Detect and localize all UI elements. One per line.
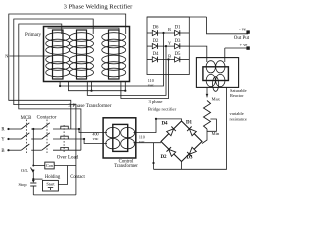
label Out Put bbox=[234, 36, 250, 41]
bridge diamond wires bbox=[161, 121, 202, 162]
wire control left rail bbox=[32, 129, 34, 166]
svg-text:Out Put: Out Put bbox=[234, 36, 250, 41]
node B dot bbox=[167, 58, 169, 60]
control transformer box bbox=[103, 118, 136, 158]
terminal -ve square bbox=[246, 30, 249, 33]
svg-text:3 phase: 3 phase bbox=[149, 99, 163, 104]
svg-text:+ ve: + ve bbox=[240, 42, 248, 47]
junction dot star limb2 bbox=[90, 90, 92, 92]
label Bridge rectifier bbox=[148, 106, 177, 111]
label +ve bbox=[240, 42, 248, 47]
label -ve bbox=[239, 27, 246, 32]
wire control right rail bbox=[75, 139, 77, 195]
junction dot star limb3 bbox=[124, 90, 126, 92]
svg-text:vac: vac bbox=[93, 136, 99, 141]
label Control Transformer bbox=[114, 159, 138, 169]
label Max bbox=[212, 97, 221, 102]
wire secondary star bus bbox=[69, 82, 126, 91]
wire negative output drop bbox=[207, 17, 249, 34]
terminal +ve square bbox=[246, 46, 249, 49]
svg-text:3 Phase Transformer: 3 Phase Transformer bbox=[69, 102, 112, 109]
svg-text:D3: D3 bbox=[186, 156, 193, 161]
label Min bbox=[212, 131, 220, 136]
wire secondary lower to bridge left bbox=[134, 142, 162, 144]
wire primary interconnect bus bbox=[48, 28, 120, 34]
title text bbox=[64, 3, 134, 10]
svg-text:MCB: MCB bbox=[21, 116, 32, 121]
wire secondary phase Y to rectifier bbox=[87, 46, 166, 95]
diode D6 label bbox=[153, 26, 159, 31]
junction dot R row tap bbox=[78, 128, 80, 130]
junction dot Y row tap bbox=[83, 138, 85, 140]
svg-text:Max: Max bbox=[212, 97, 221, 102]
wire reactor to positive output bbox=[224, 48, 226, 62]
transformer T1 limb 1 windings bbox=[46, 30, 70, 79]
svg-text:D2: D2 bbox=[153, 39, 159, 44]
junction dot bridge top wire bbox=[155, 118, 157, 120]
svg-text:variable: variable bbox=[230, 111, 244, 116]
wire control bottom bbox=[33, 194, 76, 196]
node B supply label bbox=[1, 149, 4, 154]
stop button bbox=[30, 180, 36, 195]
wire B phase loop (contactor to primary limb1) bbox=[19, 24, 81, 150]
diode D4 label bbox=[153, 52, 159, 57]
control transformer core box bbox=[113, 124, 128, 151]
junction dot lower tap bbox=[152, 162, 154, 164]
label Start bbox=[46, 182, 55, 187]
wire B row with MCB and contactor switches bbox=[9, 144, 81, 150]
wire negative output bbox=[147, 16, 207, 18]
node R dot bbox=[162, 32, 164, 34]
label 3 phase bbox=[149, 99, 163, 104]
svg-text:Y: Y bbox=[1, 138, 5, 143]
node Y supply dot bbox=[7, 138, 9, 140]
saturable reactor outer box bbox=[196, 58, 238, 88]
label 3 Phase Transformer bbox=[69, 102, 112, 109]
node Y label bbox=[168, 40, 172, 45]
diode D5 label bbox=[175, 52, 181, 57]
wire bridge bottom to return bbox=[181, 162, 183, 170]
diode D1 label bbox=[175, 26, 181, 31]
diode D2 row wire bbox=[147, 43, 189, 49]
wire rectifier positive to reactor bbox=[189, 46, 207, 62]
label 110 vac (secondary) bbox=[139, 135, 145, 144]
svg-text:- ve: - ve bbox=[239, 27, 246, 32]
wire positive output bbox=[225, 47, 248, 49]
saturable reactor windings bbox=[206, 61, 225, 92]
node R supply dot bbox=[7, 128, 9, 130]
diode D6 row wire bbox=[147, 30, 189, 36]
wire secondary phase B to rectifier bbox=[121, 59, 169, 98]
contactor linkage dashed bbox=[46, 120, 48, 154]
label Over Load bbox=[57, 156, 79, 161]
junction dot control tap bbox=[32, 128, 34, 130]
wire 400vac lower bbox=[84, 139, 107, 144]
svg-text:D1: D1 bbox=[186, 121, 193, 126]
svg-text:D1: D1 bbox=[175, 26, 181, 31]
node Y supply label bbox=[1, 138, 5, 143]
svg-text:D6: D6 bbox=[153, 26, 159, 31]
svg-text:D3: D3 bbox=[175, 39, 181, 44]
svg-text:3 Phase Welding Rectifier: 3 Phase Welding Rectifier bbox=[64, 3, 134, 10]
label Primary bbox=[25, 33, 42, 38]
label Con bbox=[46, 163, 54, 168]
diode D4 row wire bbox=[147, 57, 189, 63]
node B supply dot bbox=[7, 149, 9, 151]
svg-text:resistance: resistance bbox=[230, 117, 247, 122]
overload linkage dashed bbox=[63, 125, 65, 152]
wire Y row with MCB and contactor switches bbox=[9, 133, 85, 139]
wire coil left bbox=[32, 165, 45, 167]
svg-text:Over Load: Over Load bbox=[57, 156, 79, 161]
diode D3 label bbox=[175, 39, 181, 44]
svg-text:Con: Con bbox=[46, 163, 54, 168]
wire neutral N bbox=[10, 55, 53, 57]
svg-text:Start: Start bbox=[46, 182, 55, 187]
node N label bbox=[5, 54, 9, 59]
svg-text:B: B bbox=[1, 149, 4, 154]
arrow max wiper bbox=[206, 94, 209, 97]
rheostat wiper tap bbox=[207, 119, 216, 131]
wire reactor return to bridge bbox=[154, 87, 227, 169]
label Contactor bbox=[37, 116, 57, 121]
label Holding bbox=[45, 175, 61, 180]
wire limb3 star drop bbox=[124, 82, 126, 91]
label D1 bbox=[186, 121, 193, 126]
wire R row with MCB and contactor switches bbox=[9, 123, 80, 129]
svg-text:B: B bbox=[168, 54, 171, 59]
label variable resistance bbox=[230, 111, 247, 122]
diode D3 (bridge) bbox=[187, 147, 196, 156]
diode D1 (bridge) bbox=[187, 127, 196, 136]
svg-text:D4: D4 bbox=[153, 52, 159, 57]
resistor variable (rheostat) bbox=[204, 101, 211, 130]
rectifier bridge box bbox=[147, 17, 189, 75]
label Saturable Reactor bbox=[230, 88, 247, 98]
label 110 vac (rectifier input) bbox=[148, 78, 154, 88]
transformer T1 limb 3 windings bbox=[102, 30, 126, 79]
svg-text:Bridge rectifier: Bridge rectifier bbox=[148, 106, 177, 111]
MCB linkage dashed bbox=[26, 120, 28, 154]
contactor coil box Con bbox=[45, 162, 54, 169]
wire 400vac upper bbox=[79, 129, 107, 133]
node B label bbox=[168, 54, 171, 59]
svg-text:Contact: Contact bbox=[70, 175, 85, 180]
wire secondary phase R to rectifier bbox=[60, 33, 163, 86]
start button box bbox=[43, 180, 59, 191]
junction dot holding bbox=[32, 178, 34, 180]
diode D4 (bridge) bbox=[167, 127, 176, 136]
wire Y phase loop (contactor to primary limb2) bbox=[14, 19, 93, 139]
node R supply label bbox=[1, 128, 5, 133]
wire limb2 star drop bbox=[91, 82, 93, 91]
svg-text:Min: Min bbox=[212, 131, 220, 136]
diode D2 label bbox=[153, 39, 159, 44]
label D3 bbox=[186, 156, 193, 161]
wire coil right bbox=[54, 165, 76, 167]
transformer T1 core box bbox=[44, 27, 130, 82]
svg-text:vac: vac bbox=[148, 83, 154, 88]
label D4 bbox=[161, 122, 168, 127]
svg-text:Stop: Stop bbox=[18, 182, 27, 187]
wire reactor control winding down bbox=[206, 87, 208, 97]
overload contact O/L bbox=[31, 168, 35, 182]
wire holding branch left bbox=[33, 178, 42, 180]
label 400 vac bbox=[92, 131, 98, 141]
label Contact bbox=[70, 175, 85, 180]
transformer T1 limb 2 windings bbox=[70, 30, 94, 79]
label Stop bbox=[18, 182, 27, 187]
svg-text:Primary: Primary bbox=[25, 33, 42, 38]
control transformer windings bbox=[106, 127, 135, 148]
wire holding branch right bbox=[58, 166, 67, 185]
diode D2 (bridge) bbox=[167, 147, 176, 156]
wire rheostat to bridge bbox=[202, 129, 207, 144]
svg-text:O/L: O/L bbox=[21, 168, 28, 173]
label D2 bbox=[160, 155, 167, 160]
svg-text:Transformer: Transformer bbox=[114, 164, 138, 169]
start button symbol bbox=[48, 188, 53, 190]
junction dot secondary R bbox=[59, 85, 61, 87]
node Y dot bbox=[165, 45, 167, 47]
label O/L bbox=[21, 168, 28, 173]
svg-text:Reactor: Reactor bbox=[230, 93, 244, 98]
svg-text:D5: D5 bbox=[175, 52, 181, 57]
node R label bbox=[168, 27, 172, 32]
svg-text:D2: D2 bbox=[160, 155, 167, 160]
wire R phase loop (contactor to primary limb3) bbox=[9, 14, 126, 129]
wire secondary upper to bridge top bbox=[134, 119, 182, 133]
svg-text:Holding: Holding bbox=[45, 175, 61, 180]
svg-text:D4: D4 bbox=[161, 122, 168, 127]
label MCB bbox=[21, 116, 32, 121]
saturable reactor core box bbox=[203, 67, 229, 81]
wire lower tap down bbox=[153, 143, 155, 170]
